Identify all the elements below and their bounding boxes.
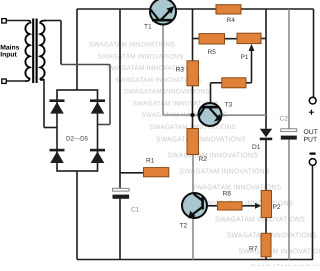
svg-text:P2: P2 bbox=[273, 204, 281, 211]
svg-text:SWAGATAM INNOVATIONS: SWAGATAM INNOVATIONS bbox=[98, 53, 184, 60]
svg-text:Mains: Mains bbox=[0, 45, 19, 52]
svg-text:+: + bbox=[309, 108, 315, 119]
svg-text:SWAGATAM INNOVATIONS: SWAGATAM INNOVATIONS bbox=[156, 136, 246, 144]
svg-text:SWAGATAM INNOVATIONS: SWAGATAM INNOVATIONS bbox=[227, 232, 317, 240]
svg-text:R4: R4 bbox=[227, 17, 236, 24]
svg-text:R5: R5 bbox=[208, 49, 217, 56]
svg-text:D2---D5: D2---D5 bbox=[66, 136, 89, 143]
svg-text:T1: T1 bbox=[144, 24, 152, 31]
svg-text:Input: Input bbox=[0, 52, 17, 59]
svg-text:PUT: PUT bbox=[304, 137, 318, 144]
svg-text:C1: C1 bbox=[131, 207, 140, 214]
svg-text:T2: T2 bbox=[180, 223, 188, 230]
svg-text:SWAGATAM INNOVATIONS: SWAGATAM INNOVATIONS bbox=[124, 89, 210, 96]
svg-text:P1: P1 bbox=[241, 54, 249, 61]
svg-text:R7: R7 bbox=[249, 246, 258, 253]
svg-text:SWAGATAM INNOVATIONS: SWAGATAM INNOVATIONS bbox=[168, 152, 258, 160]
svg-text:OUT: OUT bbox=[304, 129, 318, 136]
svg-text:R3: R3 bbox=[176, 67, 185, 74]
svg-text:R8: R8 bbox=[223, 191, 232, 198]
svg-text:D1: D1 bbox=[252, 144, 261, 151]
svg-text:C2: C2 bbox=[280, 116, 289, 123]
svg-text:R2: R2 bbox=[199, 156, 208, 163]
svg-text:T3: T3 bbox=[225, 102, 233, 109]
svg-text:R1: R1 bbox=[146, 158, 155, 165]
svg-text:SWAGATAM INNOVATIONS: SWAGATAM INNOVATIONS bbox=[215, 216, 305, 224]
